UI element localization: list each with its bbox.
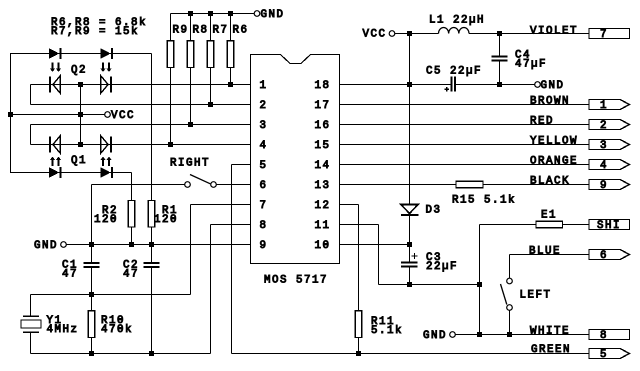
resistor R2 <box>128 201 135 228</box>
wire pin 17 BROWN row <box>340 104 590 106</box>
junction <box>129 242 134 247</box>
wire VCC to L1 <box>395 33 439 35</box>
switch LEFT <box>501 278 513 310</box>
svg-text:R9: R9 <box>173 25 189 37</box>
wire pin 5 down to bottom rail <box>232 164 251 166</box>
wire crystal stem top <box>30 295 32 316</box>
wire R9 top <box>170 14 172 41</box>
wire pin 14 ORANGE row <box>340 164 590 166</box>
resistor E1 <box>536 221 563 228</box>
resistor R7 <box>207 41 214 68</box>
svg-text:RIGHT: RIGHT <box>170 158 210 170</box>
svg-text:6: 6 <box>600 250 608 262</box>
svg-text:VIOLET: VIOLET <box>530 26 578 38</box>
resistor R10 <box>88 311 95 338</box>
wire VCC rail <box>11 114 105 116</box>
svg-text:4MHz: 4MHz <box>47 324 79 336</box>
wire L1 to VIOLET box <box>469 33 589 35</box>
junction <box>407 282 412 287</box>
svg-text:9: 9 <box>260 240 268 252</box>
label R11 5.1k <box>371 316 403 337</box>
label R2 120 <box>94 205 118 226</box>
svg-text:R15 5.1k: R15 5.1k <box>452 195 516 207</box>
svg-text:6: 6 <box>260 180 268 192</box>
svg-text:7: 7 <box>600 29 608 41</box>
wire Q1 LED to R2 <box>131 173 133 201</box>
wire left vertical rail <box>10 54 12 173</box>
opto Q1 photodiode left <box>49 137 51 153</box>
opto Q2 LED 1 <box>49 48 59 59</box>
wire crystal stem bottom <box>30 333 32 354</box>
opto Q2 LED 2 <box>100 48 110 59</box>
wire LEFT switch to WHITE row <box>509 310 511 334</box>
svg-text:E1: E1 <box>541 210 557 222</box>
wire bottom rail right to GREEN <box>232 353 590 355</box>
wire R10 stubs <box>91 295 93 311</box>
wire C5 to GND <box>456 84 535 86</box>
wire pin 7 to crystal row <box>191 204 251 206</box>
wire pin 8 to bottom rail <box>211 224 251 226</box>
ground left pin9 <box>61 242 67 248</box>
wire Q2 LED to R1 <box>151 54 153 201</box>
wire D3 to pin 10 row <box>409 216 411 245</box>
svg-text:BLACK: BLACK <box>530 176 570 188</box>
svg-text:4: 4 <box>260 140 268 152</box>
svg-text:C5 22µF: C5 22µF <box>426 66 482 78</box>
wire C1 stubs <box>91 245 93 263</box>
wire R1 bottom <box>151 227 153 245</box>
resistor R9 <box>167 41 174 68</box>
resistor R11 <box>355 311 362 338</box>
svg-text:11: 11 <box>315 220 331 232</box>
wire pin 11 down <box>340 224 379 226</box>
svg-text:YELLOW: YELLOW <box>530 136 578 148</box>
svg-text:18: 18 <box>315 80 331 92</box>
diode D3 <box>401 205 419 216</box>
svg-text:47µF: 47µF <box>515 59 547 71</box>
wire WHITE row <box>455 334 589 336</box>
svg-text:17: 17 <box>315 100 331 112</box>
svg-text:GND: GND <box>261 9 285 21</box>
crystal Y1 <box>21 316 41 332</box>
junction <box>477 282 482 287</box>
wire VCC vertical to D3 <box>409 34 411 205</box>
svg-text:GND: GND <box>34 240 58 252</box>
wire Q1 photodiode row to pin 4 <box>31 144 251 146</box>
wire photodiode wrap to pin 3 <box>30 125 32 145</box>
capacitor C5 polarized <box>445 77 455 92</box>
opto Q2 photodiode left <box>49 77 51 93</box>
label R10 470k <box>101 315 133 336</box>
junction <box>78 82 83 87</box>
label Y1 4MHz <box>47 315 79 336</box>
svg-text:5: 5 <box>600 349 608 361</box>
wire R7 bottom to pin2 row <box>210 68 212 105</box>
capacitor C4 <box>492 57 508 61</box>
ground right of C5 <box>535 82 541 88</box>
junction <box>89 292 94 297</box>
svg-text:16: 16 <box>315 120 331 132</box>
wire R8 bottom to pin3 row <box>190 68 192 125</box>
wire photodiode center feed <box>80 85 82 145</box>
svg-text:2: 2 <box>260 100 268 112</box>
svg-text:47: 47 <box>62 269 78 281</box>
svg-text:4: 4 <box>600 160 608 172</box>
svg-text:14: 14 <box>315 160 331 172</box>
wire R11 bottom <box>358 338 360 354</box>
opto Q1 LED 1 <box>49 167 59 178</box>
junction <box>407 242 412 247</box>
junction <box>78 142 83 147</box>
svg-text:SHI: SHI <box>597 220 621 232</box>
svg-text:RED: RED <box>530 116 554 128</box>
VCC left <box>105 112 111 118</box>
junction <box>477 332 482 337</box>
svg-text:2: 2 <box>600 120 608 132</box>
wire GND row pin 9 <box>66 244 250 246</box>
wire pin 10 row <box>340 244 410 246</box>
connector pin 6 BLUE <box>589 250 630 260</box>
svg-text:3: 3 <box>260 120 268 132</box>
svg-text:GND: GND <box>423 330 447 342</box>
wire R7 top <box>210 14 212 41</box>
svg-text:3: 3 <box>600 140 608 152</box>
svg-text:D3: D3 <box>426 205 442 217</box>
svg-text:120: 120 <box>94 214 118 226</box>
resistor R6 <box>227 41 234 68</box>
opto Q1 LED 2 <box>100 167 110 178</box>
svg-text:R7: R7 <box>213 25 229 37</box>
svg-text:L1 22µH: L1 22µH <box>429 15 485 27</box>
label C4 47uF <box>515 50 547 71</box>
connector pin 4 ORANGE <box>589 160 630 170</box>
svg-text:GREEN: GREEN <box>531 344 571 356</box>
wire C2 stubs <box>151 245 153 263</box>
svg-text:8: 8 <box>600 330 608 342</box>
svg-text:BROWN: BROWN <box>530 96 570 108</box>
wire Q2 LED row <box>10 53 152 55</box>
wire R6 top <box>230 14 232 41</box>
svg-text:5.1k: 5.1k <box>371 325 403 337</box>
svg-text:R7,R9 = 15k: R7,R9 = 15k <box>51 26 139 38</box>
junction <box>8 112 13 117</box>
svg-text:Q2: Q2 <box>71 65 87 77</box>
junction <box>188 122 193 127</box>
svg-text:ORANGE: ORANGE <box>530 156 578 168</box>
junction <box>168 142 173 147</box>
junction <box>356 351 361 356</box>
wire pin 12 to R11 <box>340 204 359 206</box>
svg-text:9: 9 <box>600 180 608 192</box>
wire R6 bottom to pin1 row <box>230 68 232 85</box>
junction <box>228 82 233 87</box>
svg-text:LEFT: LEFT <box>520 290 552 302</box>
svg-text:BLUE: BLUE <box>529 246 561 258</box>
opto Q2 emission arrows <box>50 63 112 73</box>
junction <box>188 11 193 16</box>
connector pin 1 BROWN <box>589 100 630 110</box>
svg-text:1: 1 <box>600 100 608 112</box>
wire Q1 LED row <box>10 172 132 174</box>
svg-text:MOS 5717: MOS 5717 <box>264 275 328 287</box>
wire C4 top stub <box>499 34 501 57</box>
label C3 22uF <box>426 252 458 273</box>
connector pin 7 VIOLET <box>589 29 630 39</box>
wire R9 bottom to pin4 row <box>170 68 172 145</box>
capacitor C3 polarized <box>401 253 418 266</box>
svg-text:47: 47 <box>123 269 139 281</box>
wire C3 bottom row <box>379 284 480 286</box>
opto Q1 emission arrows <box>50 157 112 167</box>
connector pin 5 GREEN <box>589 349 630 359</box>
svg-text:VCC: VCC <box>111 110 135 122</box>
U1 left pin numbers 1-9 <box>260 80 268 252</box>
resistor R15 <box>456 181 483 188</box>
wire bottom rail left <box>31 353 211 355</box>
svg-text:7: 7 <box>260 200 268 212</box>
svg-text:470k: 470k <box>101 324 133 336</box>
wire shield vertical <box>479 285 481 335</box>
svg-text:12: 12 <box>315 200 331 212</box>
wire pin 6 from RIGHT switch <box>216 184 250 186</box>
wire RIGHT switch left <box>92 184 185 186</box>
label C1 47 <box>62 260 78 281</box>
connector pin 3 YELLOW <box>589 140 630 150</box>
junction <box>89 351 94 356</box>
junction <box>507 332 512 337</box>
wire BLUE row <box>510 254 591 256</box>
wire pin 16 RED row <box>340 124 590 126</box>
wire E1 row <box>479 225 481 285</box>
connector SHIELD <box>589 220 630 230</box>
op-amp U1 MOS 5717 IC body <box>251 55 340 264</box>
junction <box>407 31 412 36</box>
svg-text:Q1: Q1 <box>71 155 87 167</box>
wire pin 13 BLACK row <box>340 184 457 186</box>
junction <box>149 351 154 356</box>
svg-text:15: 15 <box>315 140 331 152</box>
connector pin 9 BLACK <box>589 180 630 190</box>
resistor R1 <box>148 201 155 228</box>
svg-text:R8: R8 <box>193 25 209 37</box>
wire top GND rail <box>171 13 255 15</box>
opto Q2 photodiode right <box>101 76 108 94</box>
connector pin 8 WHITE <box>589 330 630 340</box>
wire C4 bottom stub <box>499 62 501 85</box>
wire R2 bottom <box>131 227 133 245</box>
resistor R8 <box>187 41 194 68</box>
junction <box>208 11 213 16</box>
junction <box>228 11 233 16</box>
ground top <box>254 11 260 17</box>
svg-text:10: 10 <box>315 240 331 252</box>
svg-text:13: 13 <box>315 180 331 192</box>
wire R8 top <box>190 14 192 41</box>
junction <box>78 112 83 117</box>
svg-text:1: 1 <box>260 80 268 92</box>
junction <box>497 82 502 87</box>
note resistor values <box>51 17 147 38</box>
opto Q1 photodiode right <box>101 136 108 154</box>
wire photodiode wrap to pin 2 <box>30 85 32 105</box>
connector pin 2 RED <box>589 120 630 130</box>
inductor L1 <box>439 27 469 33</box>
capacitor C2 <box>144 263 160 267</box>
label R1 120 <box>154 205 178 226</box>
wire pin 15 YELLOW row <box>340 144 590 146</box>
svg-text:8: 8 <box>260 220 268 232</box>
svg-text:GND: GND <box>541 80 565 92</box>
wire pin 18 to C5 <box>340 84 452 86</box>
junction <box>497 31 502 36</box>
svg-text:R6: R6 <box>233 25 249 37</box>
junction <box>149 242 154 247</box>
wire crystal row <box>31 294 191 296</box>
svg-text:120: 120 <box>154 214 178 226</box>
U1 right pin numbers 18-10 <box>315 80 331 252</box>
junction <box>208 102 213 107</box>
svg-text:WHITE: WHITE <box>530 326 570 338</box>
wire Q2 photodiode row to pin 1 <box>31 84 251 86</box>
wire C3 stubs <box>409 245 411 262</box>
svg-text:VCC: VCC <box>363 29 387 41</box>
svg-text:5: 5 <box>260 160 268 172</box>
switch RIGHT <box>185 175 217 188</box>
junction <box>407 82 412 87</box>
junction <box>89 242 94 247</box>
label C2 47 <box>123 260 139 281</box>
svg-text:22µF: 22µF <box>426 261 458 273</box>
capacitor C1 <box>84 263 100 267</box>
